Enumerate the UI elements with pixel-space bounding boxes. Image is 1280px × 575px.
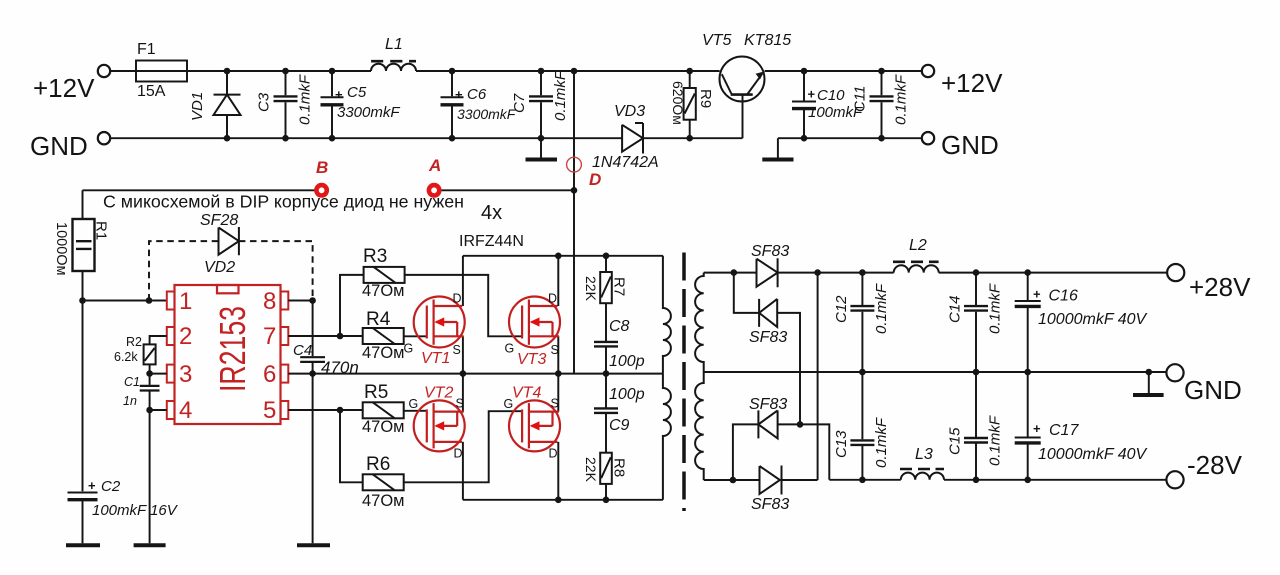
wire R1 to C2 vertical — [82, 301, 84, 492]
svg-text:VT5: VT5 — [702, 32, 731, 49]
diode VD1 — [189, 71, 241, 138]
svg-text:F1: F1 — [137, 41, 156, 58]
svg-text:22K: 22K — [583, 457, 599, 483]
wire -28V rail — [829, 479, 1166, 481]
capacitor C10 100mkF (electrolytic) — [792, 71, 863, 138]
terminal +28V — [1167, 264, 1251, 302]
pin number 5 — [263, 397, 276, 424]
svg-text:С микосхемой в DIP корпусе дио: С микосхемой в DIP корпусе диод не нужен — [103, 192, 464, 212]
junction dots on +12V rail — [224, 68, 885, 75]
svg-text:S: S — [551, 397, 559, 411]
capacitor C17 10000mkF 40V (electrolytic) — [1015, 372, 1148, 480]
svg-text:+28V: +28V — [1189, 272, 1251, 302]
note text (Russian) — [103, 192, 464, 212]
inductor L1 — [371, 36, 416, 71]
svg-text:VT4: VT4 — [512, 385, 541, 402]
diode VD2 SF28 with dashed bypass — [149, 212, 313, 301]
svg-text:3300mkF: 3300mkF — [337, 104, 400, 121]
svg-text:R8: R8 — [611, 458, 628, 477]
pin number 8 — [263, 288, 276, 315]
wire D3 branch from winding bottom — [733, 424, 759, 480]
transistor VT2 IRFZ44N — [409, 374, 465, 500]
resistor R1 1000Om — [53, 190, 110, 300]
wire R6 to VT4 gate — [404, 411, 522, 482]
svg-text:1: 1 — [179, 288, 192, 315]
svg-text:0.1mkF: 0.1mkF — [987, 283, 1004, 334]
svg-text:C2: C2 — [101, 478, 121, 495]
wire pin7 row — [288, 335, 340, 337]
svg-text:+: + — [455, 87, 463, 102]
svg-text:L1: L1 — [385, 36, 403, 53]
pin number 3 — [179, 361, 192, 388]
capacitor C4 470n — [293, 301, 359, 378]
svg-text:4: 4 — [179, 397, 192, 424]
svg-text:620Ом: 620Ом — [670, 81, 686, 125]
ground symbol output 12V — [762, 138, 793, 159]
junction dot pin3 — [146, 370, 153, 377]
junction dot pin4 — [146, 407, 153, 414]
junction dots top bus — [555, 253, 609, 260]
svg-text:D: D — [453, 292, 462, 306]
svg-text:100p: 100p — [609, 353, 645, 370]
svg-text:+12V: +12V — [33, 73, 95, 103]
svg-text:GND: GND — [30, 131, 88, 161]
pin number 6 — [263, 361, 276, 388]
svg-text:+: + — [1033, 287, 1041, 302]
svg-text:100mkF 16V: 100mkF 16V — [92, 502, 179, 519]
svg-text:C11: C11 — [852, 86, 869, 112]
transformer T1 core — [682, 253, 686, 512]
terminal -28V — [1166, 450, 1242, 488]
svg-text:0.1mkF: 0.1mkF — [873, 283, 890, 334]
svg-text:R6: R6 — [366, 454, 390, 475]
svg-text:SF83: SF83 — [749, 396, 787, 413]
pin 6 — [281, 365, 289, 383]
terminal GND (28V side) — [1166, 364, 1241, 405]
svg-text:R3: R3 — [363, 246, 387, 267]
wire output GND segment — [778, 137, 922, 139]
svg-text:47Ом: 47Ом — [362, 282, 405, 300]
svg-text:S: S — [456, 397, 464, 411]
ground bar pin6 — [297, 543, 330, 547]
IC U1 IR2153 body — [167, 285, 289, 424]
wire pin8 row — [288, 300, 312, 302]
resistor R5 47Om — [340, 382, 405, 436]
svg-text:C17: C17 — [1049, 422, 1079, 439]
svg-text:R4: R4 — [366, 309, 391, 330]
svg-text:10000mkF 40V: 10000mkF 40V — [1038, 311, 1148, 328]
pin 4 — [167, 401, 175, 419]
pin 7 — [281, 327, 289, 345]
svg-text:0.1mkF: 0.1mkF — [552, 70, 569, 121]
svg-text:VT1: VT1 — [421, 350, 450, 367]
wire GND input rail — [110, 137, 742, 139]
svg-text:C5: C5 — [347, 84, 367, 101]
svg-text:+: + — [88, 478, 96, 493]
label IR2153 — [212, 306, 253, 392]
capacitor C3 0.1mkF — [256, 71, 314, 138]
svg-text:SF83: SF83 — [751, 496, 789, 513]
svg-text:15A: 15A — [137, 83, 166, 100]
svg-text:47Ом: 47Ом — [362, 344, 405, 362]
wire pin6 ground drop — [312, 374, 314, 544]
svg-text:8: 8 — [263, 288, 276, 315]
svg-text:C9: C9 — [609, 417, 630, 434]
svg-text:VT2: VT2 — [424, 385, 453, 402]
svg-text:D: D — [549, 447, 558, 461]
junction dots rectifier — [730, 269, 821, 483]
resistor R6 47Om — [362, 454, 405, 510]
diode VD7 SF83 (bottom, to +28V) — [751, 466, 789, 514]
resistor R8 22K — [583, 453, 628, 500]
transformer T1 secondary winding — [695, 273, 704, 480]
transformer T1 primary winding — [663, 256, 671, 500]
capacitor C7 0.1mkF — [511, 70, 569, 138]
ground symbol output GND — [1133, 372, 1164, 395]
resistor R9 620Om — [670, 71, 714, 138]
junction dot D2/D3 anodes — [797, 421, 804, 428]
svg-text:C15: C15 — [947, 427, 964, 455]
pin 5 — [281, 401, 289, 419]
junction dots output GND line — [859, 369, 1152, 376]
junction dots output 12V rails — [801, 135, 885, 142]
capacitor C11 0.1mkF — [852, 71, 910, 138]
svg-text:S: S — [551, 343, 559, 357]
zener diode VD3 1N4742A — [592, 103, 659, 171]
svg-text:C3: C3 — [256, 92, 273, 112]
label 4x — [481, 202, 502, 224]
label IRFZ44N — [459, 233, 524, 250]
svg-text:KT815: KT815 — [744, 32, 791, 49]
svg-text:6.2k: 6.2k — [114, 350, 138, 364]
wire secondary bottom lead — [704, 479, 760, 481]
svg-text:G: G — [505, 342, 515, 356]
capacitor C14 0.1mkF — [947, 273, 1004, 372]
svg-text:22K: 22K — [583, 276, 599, 302]
pin number 4 — [179, 397, 192, 424]
capacitor C1 1n — [123, 375, 160, 543]
svg-text:C13: C13 — [833, 430, 850, 458]
capacitor C5 3300mkF (electrolytic) — [321, 71, 401, 138]
svg-text:G: G — [404, 342, 414, 356]
wire B segment (left frame top) — [83, 189, 322, 191]
terminal +12V input — [33, 65, 110, 103]
svg-text:3: 3 — [179, 361, 192, 388]
svg-text:C7: C7 — [511, 93, 528, 113]
svg-text:1N4742A: 1N4742A — [592, 154, 659, 171]
wire secondary top lead — [704, 272, 757, 274]
svg-text:GND: GND — [941, 130, 999, 160]
svg-text:C1: C1 — [124, 375, 140, 389]
transistor VT4 IRFZ44N — [504, 374, 561, 500]
svg-text:+12V: +12V — [941, 68, 1003, 98]
ground symbol below C7 — [526, 138, 558, 159]
svg-text:C14: C14 — [947, 295, 964, 323]
svg-text:C12: C12 — [833, 295, 850, 323]
junction dots on GND input rail — [224, 135, 693, 142]
svg-text:+: + — [335, 87, 343, 102]
junction dots mid bus — [309, 370, 609, 377]
ground bar below C2 — [66, 543, 100, 547]
svg-text:VD3: VD3 — [614, 103, 645, 120]
svg-text:100p: 100p — [609, 386, 645, 403]
svg-text:VT3: VT3 — [517, 351, 546, 368]
wire pin5 row — [288, 409, 340, 411]
svg-text:GND: GND — [1184, 375, 1242, 405]
svg-text:IR2153: IR2153 — [212, 306, 253, 392]
svg-text:C4: C4 — [293, 342, 312, 359]
svg-text:SF83: SF83 — [749, 329, 787, 346]
svg-text:SF83: SF83 — [751, 243, 789, 260]
svg-text:3300mkF: 3300mkF — [457, 106, 517, 122]
svg-text:A: A — [428, 156, 441, 175]
pin 3 — [167, 365, 175, 383]
svg-text:C8: C8 — [609, 318, 630, 335]
svg-text:47Ом: 47Ом — [362, 492, 405, 510]
wire node D vertical (+12V feed to center tap) — [573, 71, 575, 374]
terminal +12V output — [922, 65, 1003, 98]
svg-text:C6: C6 — [467, 86, 487, 103]
wire pin3 row — [150, 364, 167, 385]
pin 8 — [281, 292, 289, 310]
wire pin6 mid bus — [288, 373, 663, 375]
resistor R4 47Om — [340, 309, 405, 362]
svg-text:S: S — [453, 343, 461, 357]
svg-text:L3: L3 — [915, 446, 933, 463]
svg-text:6: 6 — [263, 361, 276, 388]
inductor L2 — [893, 237, 939, 273]
capacitor C12 0.1mkF — [833, 273, 890, 372]
wire R4 to VT1 gate — [404, 335, 427, 337]
wire pin1 row — [83, 300, 167, 302]
wire top bus — [463, 255, 663, 257]
capacitor C13 0.1mkF — [833, 372, 890, 480]
transistor VT3 IRFZ44N — [505, 256, 561, 374]
svg-text:G: G — [409, 397, 419, 411]
wire D4 cathode up to +28 rail — [782, 273, 818, 480]
resistor R3 47Om — [362, 246, 405, 300]
svg-text:C10: C10 — [817, 87, 845, 104]
fuse F1 15A — [136, 41, 187, 100]
pin number 2 — [179, 323, 192, 350]
wire A to D segment — [434, 189, 574, 191]
svg-text:IRFZ44N: IRFZ44N — [459, 233, 524, 250]
wire R5 to VT2 gate — [404, 410, 427, 412]
diode VD4 SF83 (top, to +28V) — [751, 243, 789, 287]
svg-text:L2: L2 — [909, 237, 927, 254]
svg-text:R2: R2 — [126, 335, 142, 349]
junction dots -28V rail — [859, 477, 1031, 484]
junction dots bottom bus — [555, 497, 609, 504]
svg-text:+: + — [1033, 421, 1041, 436]
diode VD5 SF83 (second, to -28V) — [749, 299, 787, 346]
capacitor C2 100mkF 16V (electrolytic) — [68, 478, 179, 543]
diode VD6 SF83 (third, to -28V) — [749, 396, 787, 438]
junction dot pin7 — [337, 333, 344, 340]
svg-text:D: D — [548, 292, 557, 306]
svg-text:0.1mkF: 0.1mkF — [987, 415, 1004, 466]
svg-text:5: 5 — [263, 397, 276, 424]
svg-text:R9: R9 — [697, 89, 714, 108]
node B marker — [314, 158, 329, 198]
terminal GND output — [922, 130, 999, 160]
capacitor C9 100p — [594, 374, 645, 453]
svg-text:7: 7 — [263, 323, 276, 350]
junction dots +28V rail — [859, 269, 1031, 276]
junction dot pin5 — [337, 407, 344, 414]
svg-text:C16: C16 — [1049, 288, 1078, 305]
svg-text:SF28: SF28 — [200, 212, 238, 229]
transistor VT5 KT815 — [702, 32, 791, 138]
resistor R2 6.2k — [114, 335, 156, 364]
wire D2 anode to -28 junction — [777, 313, 800, 425]
transistor VT1 IRFZ44N — [404, 256, 465, 374]
capacitor C6 3300mkF (electrolytic) — [441, 71, 517, 138]
svg-text:1000Ом: 1000Ом — [53, 222, 69, 276]
svg-text:-28V: -28V — [1187, 450, 1243, 480]
inductor L3 — [900, 446, 944, 480]
capacitor C15 0.1mkF — [947, 372, 1004, 480]
capacitor C8 100p — [594, 318, 645, 374]
svg-text:2: 2 — [179, 323, 192, 350]
svg-text:+: + — [808, 87, 816, 102]
node A marker — [427, 156, 442, 198]
svg-text:47Ом: 47Ом — [362, 418, 405, 436]
node D marker (red circle and label) — [567, 157, 602, 189]
svg-text:R5: R5 — [364, 382, 388, 403]
wire pin4 row — [150, 409, 167, 411]
svg-text:0.1mkF: 0.1mkF — [297, 74, 314, 125]
pin number 7 — [263, 323, 276, 350]
svg-text:0.1mkF: 0.1mkF — [893, 74, 910, 125]
capacitor C16 10000mkF 40V (electrolytic) — [1015, 273, 1148, 372]
wire bottom bus — [463, 499, 663, 501]
svg-text:VD2: VD2 — [204, 259, 235, 276]
svg-text:4x: 4x — [481, 202, 502, 224]
svg-text:B: B — [316, 158, 328, 177]
wire +12V top rail — [110, 70, 921, 72]
ground bar below C1 — [134, 543, 166, 547]
wire D3 anode to -28 rail corner — [778, 424, 830, 479]
wire R3 branch up — [340, 275, 364, 336]
svg-text:VD1: VD1 — [189, 92, 206, 121]
pin 2 — [167, 327, 175, 345]
wire +28V rail — [778, 272, 1168, 274]
svg-text:10000mkF 40V: 10000mkF 40V — [1038, 446, 1148, 463]
junction dots pin1 row — [79, 297, 152, 304]
wire pin2 to R2 — [150, 336, 167, 344]
svg-text:D: D — [454, 447, 463, 461]
svg-text:1n: 1n — [123, 394, 137, 408]
svg-text:D: D — [589, 170, 601, 189]
svg-text:R1: R1 — [93, 221, 110, 240]
pin number 1 — [179, 288, 192, 315]
junction node D wire to A wire — [571, 187, 578, 194]
svg-text:0.1mkF: 0.1mkF — [873, 417, 890, 468]
pin 1 — [167, 292, 175, 310]
wire output GND line — [704, 371, 1167, 373]
junction dot pin8 — [309, 297, 316, 304]
resistor R7 22K — [583, 256, 628, 341]
wire R3 to VT3 gate — [405, 275, 522, 336]
svg-text:R7: R7 — [611, 277, 628, 296]
wire D2 branch from winding top — [734, 273, 759, 313]
wire R6 branch down — [340, 410, 363, 482]
terminal GND input — [30, 131, 110, 161]
